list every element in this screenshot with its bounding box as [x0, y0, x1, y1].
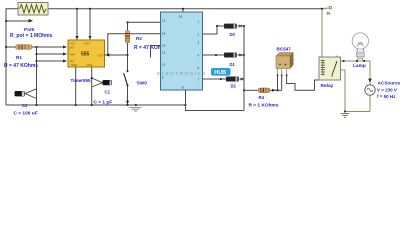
svg-text:f = 50 Hz: f = 50 Hz — [377, 94, 396, 99]
svg-text:C = 100 uF: C = 100 uF — [14, 111, 38, 117]
svg-text:Lamp: Lamp — [353, 63, 366, 69]
svg-text:R_pot = 1 MOhms: R_pot = 1 MOhms — [10, 33, 53, 39]
wire: to 555 TRI — [37, 60, 68, 63]
svg-text:BC547: BC547 — [277, 47, 292, 52]
svg-text:15: 15 — [162, 44, 166, 48]
ground symbol (mid) — [130, 107, 142, 111]
IC 4017 U2 — [151, 8, 203, 90]
svg-text:11: 11 — [162, 63, 165, 67]
svg-text:RST: RST — [85, 41, 91, 45]
op 555 timer U1 — [68, 40, 105, 67]
wire: bottom ground rail — [6, 104, 244, 110]
svg-text:555: 555 — [81, 51, 90, 57]
svg-text:Pot0: Pot0 — [24, 27, 35, 33]
svg-text:D2: D2 — [231, 84, 237, 89]
svg-text:THR: THR — [69, 52, 75, 56]
svg-text:Relay: Relay — [321, 83, 334, 89]
svg-text:ACSource: ACSource — [378, 80, 401, 85]
wire: relay NO to lamp — [341, 60, 371, 62]
AC source — [365, 85, 375, 95]
diode D0 — [203, 24, 245, 34]
svg-text:R1: R1 — [16, 55, 22, 60]
svg-text:12: 12 — [162, 51, 166, 55]
svg-text:D0: D0 — [230, 32, 236, 37]
svg-text:V = 230 V: V = 230 V — [377, 88, 397, 93]
diode D1 — [203, 53, 245, 58]
wire: AC bottom return — [344, 95, 370, 112]
svg-text:R = 1 KOhms: R = 1 KOhms — [249, 103, 279, 109]
relay — [319, 56, 341, 81]
svg-text:C2: C2 — [22, 103, 28, 108]
wire: rail to relay coil — [321, 8, 323, 57]
svg-text:9v: 9v — [327, 11, 331, 15]
svg-text:OUT: OUT — [98, 53, 104, 57]
svg-text:GND: GND — [71, 63, 77, 67]
wire: pot wiper — [5, 19, 33, 23]
wire: OUT to R2/SW node — [105, 54, 128, 56]
power terminal 9v — [327, 6, 332, 15]
node bus: 555 input pins — [36, 46, 38, 88]
svg-text:R4: R4 — [259, 95, 265, 100]
wire: OUT up to 4017 pin14 (clock) — [106, 34, 161, 57]
label R2 value — [134, 44, 169, 51]
transistor Q1 BC547 — [276, 53, 320, 92]
wire: top VCC rail — [48, 7, 329, 10]
wire: relay COM to ground — [341, 70, 346, 112]
svg-text:16: 16 — [179, 14, 183, 18]
capacitor C2 — [15, 89, 38, 106]
lamp — [352, 33, 368, 61]
svg-text:SW0: SW0 — [137, 80, 148, 86]
resistor R4 — [244, 88, 282, 93]
wire: 4017 pin8 down — [185, 90, 187, 111]
wire: 555 CON down — [91, 67, 103, 105]
wire: VCC drop to 555 — [75, 8, 78, 40]
wire: to 555 THR — [37, 53, 68, 56]
capacitor C1 — [103, 80, 113, 85]
wire: node to 4017 pin13 — [128, 21, 161, 23]
svg-text:DIS: DIS — [69, 45, 74, 49]
svg-text:C1: C1 — [105, 89, 111, 94]
wire: lamp to AC source — [368, 61, 372, 85]
svg-text:CON: CON — [86, 63, 92, 67]
svg-text:R2: R2 — [136, 36, 142, 41]
svg-text:ELECTRONICS: ELECTRONICS — [157, 71, 207, 76]
wire: RST drop to 555 — [88, 8, 91, 40]
potentiometer Pot0 — [18, 3, 48, 16]
svg-text:D1: D1 — [230, 62, 236, 67]
svg-text:14: 14 — [162, 32, 166, 36]
wire: diode bus — [243, 26, 245, 111]
resistor R1 — [5, 45, 36, 50]
svg-text:R = 47 KOhms: R = 47 KOhms — [4, 63, 38, 69]
watermark ELECTRONICS HUB — [157, 68, 231, 76]
diode D2 — [203, 77, 245, 82]
svg-text:Timer555: Timer555 — [71, 78, 92, 83]
wire: 555 GND to rail — [75, 67, 77, 105]
switch SW0 — [124, 55, 130, 105]
ground symbol (right) — [341, 114, 350, 118]
resistor R2 — [125, 21, 130, 56]
wire: left rail — [6, 9, 18, 105]
wire: to 555 DIS — [37, 46, 68, 49]
svg-text:13: 13 — [162, 19, 166, 23]
svg-text:HUB: HUB — [214, 70, 226, 76]
